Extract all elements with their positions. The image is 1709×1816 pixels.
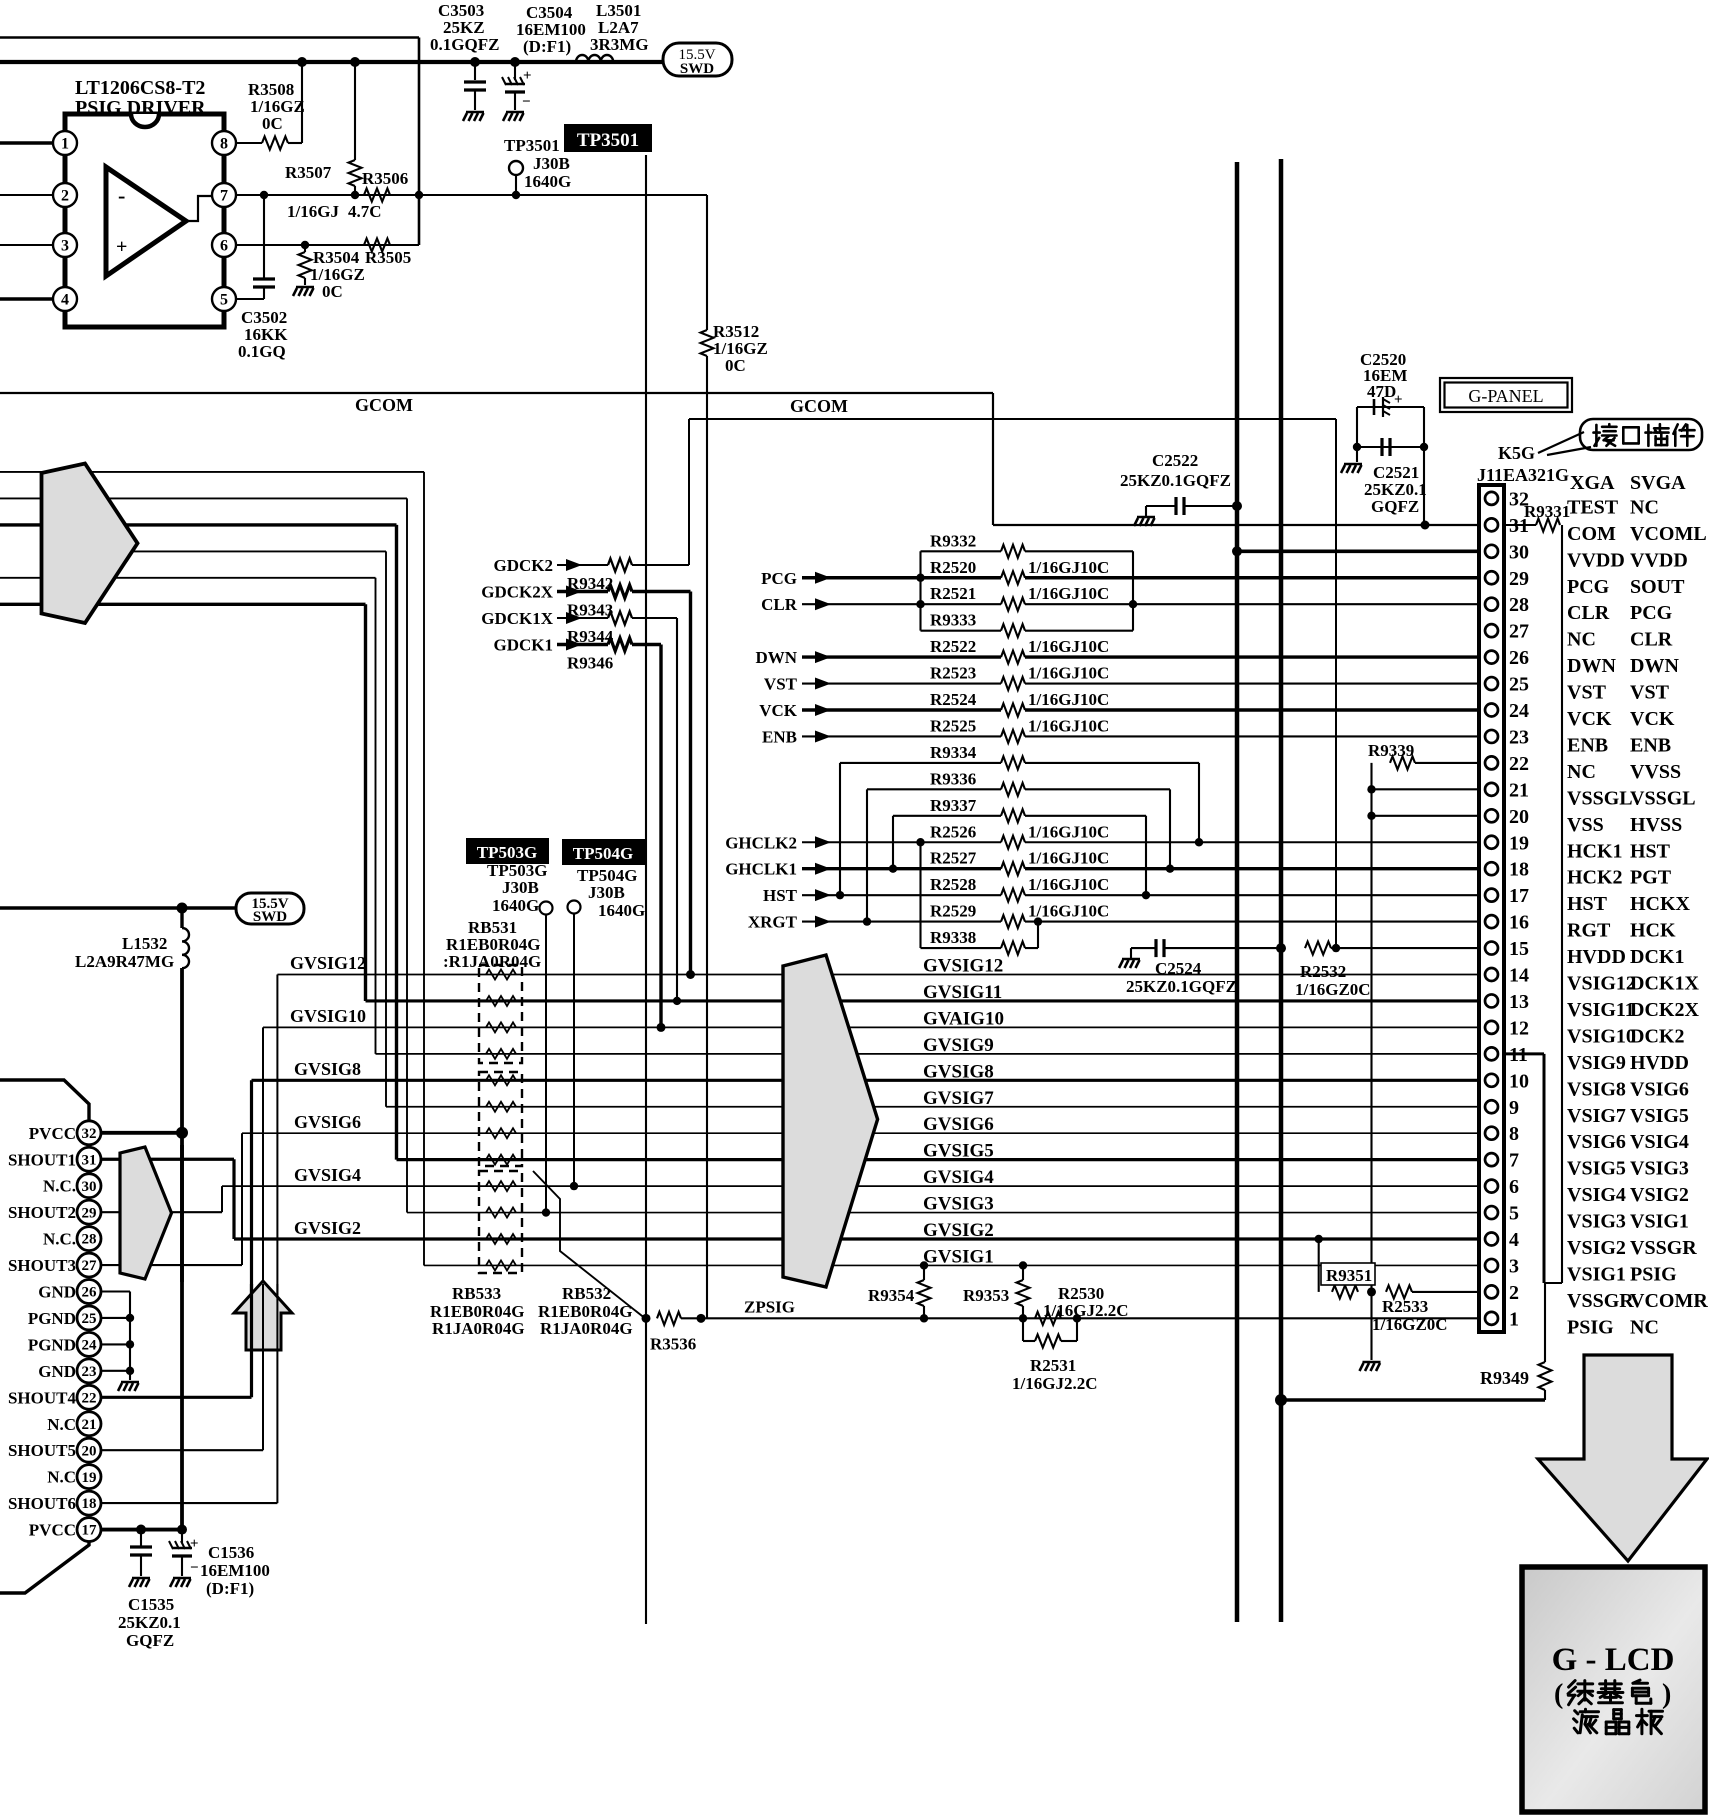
capacitor C3504 polarized to ground — [514, 62, 516, 80]
svg-text:25: 25 — [82, 1311, 97, 1327]
svg-text:24: 24 — [1509, 700, 1529, 722]
wire input line to pin 1 — [0, 141, 53, 144]
svg-text:19: 19 — [82, 1470, 97, 1486]
capacitor C2522 to VVDD bus — [1134, 517, 1155, 526]
svg-text:VVSS: VVSS — [1630, 761, 1681, 783]
resistor R3512 — [701, 330, 714, 356]
test point TP504G black label box — [562, 839, 645, 865]
wire op-amp output step to pin 7 — [186, 196, 211, 221]
wire VSIG row to pin 4 — [234, 1237, 1479, 1240]
resistor R2533 to pin2 — [1386, 1285, 1412, 1298]
svg-text:HCK2: HCK2 — [1567, 867, 1623, 889]
wire SHOUT4 line — [101, 1396, 252, 1399]
svg-text:(: ( — [1554, 1679, 1563, 1710]
svg-text:PVCC: PVCC — [29, 1521, 76, 1540]
svg-text:J30B: J30B — [588, 883, 625, 902]
wire G signal input row 2 — [0, 497, 407, 499]
left connector pin circle 25 — [77, 1306, 101, 1330]
svg-text:GVSIG2: GVSIG2 — [294, 1218, 361, 1238]
svg-text:NC: NC — [1567, 761, 1596, 783]
svg-text:GHCLK1: GHCLK1 — [725, 860, 797, 879]
pin 8 of U — [212, 131, 236, 155]
pin 1 of U — [53, 131, 77, 155]
svg-text:GVSIG9: GVSIG9 — [923, 1035, 994, 1056]
wire GHCLK1 to connector — [1025, 867, 1479, 870]
svg-text:VCK: VCK — [1567, 708, 1612, 730]
junction R3506 right with vertical — [415, 191, 423, 199]
wire GDCK2 riser up to GCOM2 — [688, 419, 690, 565]
left connector pin circle 21 — [77, 1412, 101, 1436]
connector pin 30 — [1485, 545, 1498, 558]
power flag 15.5V SWD top — [663, 43, 732, 76]
svg-text:R3536: R3536 — [650, 1334, 696, 1353]
wire SHOUT6 feeder up to VSIG12 row — [276, 975, 278, 1504]
svg-text:VSS: VSS — [1567, 814, 1604, 836]
svg-text:7: 7 — [220, 187, 228, 204]
connector pin 15 — [1485, 942, 1498, 955]
svg-text::R1JA0R04G: :R1JA0R04G — [443, 952, 541, 971]
svg-text:NC: NC — [1630, 1316, 1659, 1338]
svg-text:VSSGL: VSSGL — [1630, 787, 1696, 809]
svg-text:CLR: CLR — [1567, 602, 1610, 624]
svg-text:VSIG11: VSIG11 — [1567, 999, 1635, 1021]
svg-text:VCOML: VCOML — [1630, 523, 1707, 545]
wire jog join to R9349 — [1544, 1282, 1562, 1284]
wire PVCC17 line — [101, 1528, 182, 1532]
svg-text:1/16GJ: 1/16GJ — [287, 202, 339, 221]
svg-text:SHOUT3: SHOUT3 — [8, 1256, 76, 1275]
junction pin7 line and C3502 — [260, 191, 268, 199]
svg-text:4: 4 — [1509, 1229, 1519, 1251]
svg-text:TP503G: TP503G — [477, 843, 537, 862]
svg-text:29: 29 — [1509, 568, 1529, 590]
wire pin6 line — [236, 244, 419, 246]
resistor R3507 vertical from rail to pin7 line — [354, 62, 356, 160]
resistor element in pack row pin 11 — [486, 1049, 516, 1059]
svg-text:SWD: SWD — [253, 909, 287, 925]
svg-text:19: 19 — [1509, 832, 1529, 854]
svg-text:47D: 47D — [1367, 382, 1396, 401]
wire VSIG row to pin 11 — [376, 1053, 1480, 1055]
svg-text:R9339: R9339 — [1368, 741, 1414, 760]
svg-text:29: 29 — [82, 1205, 97, 1221]
op-amp triangle — [106, 167, 186, 276]
svg-text:VSIG5: VSIG5 — [1567, 1158, 1626, 1180]
pin 5 of U — [212, 287, 236, 311]
capacitor C2521 below — [1356, 407, 1358, 447]
junction ZPSIG at TP3501 vertical — [642, 1314, 651, 1323]
wire VSIG row to pin 5 — [407, 1212, 1479, 1214]
wire SHOUT2 line — [101, 1211, 222, 1213]
connector pin 12 — [1485, 1021, 1498, 1034]
wire VST to connector — [1025, 682, 1479, 684]
svg-text:SWD: SWD — [680, 61, 714, 77]
resistor pack RB531 dashed box — [479, 965, 522, 1063]
svg-text:16EM100: 16EM100 — [200, 1561, 270, 1580]
left connector pin circle 28 — [77, 1227, 101, 1251]
connector pin 24 — [1485, 704, 1498, 717]
svg-text:HST: HST — [763, 886, 798, 905]
resistor R9351 — [1318, 1239, 1320, 1292]
test point TP504G circle and stem to VSIG4 row — [568, 901, 581, 914]
wire R3508 to rail — [288, 142, 302, 144]
wire SHOUT3 line — [101, 1264, 242, 1266]
resistor R2532 to pin15 — [1305, 942, 1331, 955]
left connector pin circle 18 — [77, 1491, 101, 1515]
junction ZPSIG at R3512 vertical — [697, 1314, 706, 1323]
amplifier body outline top — [0, 1080, 89, 1121]
svg-text:1/16GJ2.2C: 1/16GJ2.2C — [1012, 1374, 1097, 1393]
svg-text:0C: 0C — [262, 114, 283, 133]
svg-text:SOUT: SOUT — [1630, 576, 1685, 598]
svg-text:R2520: R2520 — [930, 558, 976, 577]
left connector pin circle 31 — [77, 1147, 101, 1171]
resistor pack RB532 dashed box — [479, 1171, 522, 1273]
wire ZPSIG to connector pin1 PSIG — [701, 1317, 1479, 1319]
wire VSIG row to pin 12 — [263, 1026, 1479, 1028]
pin 4 of U — [53, 287, 77, 311]
svg-text:SHOUT1: SHOUT1 — [8, 1150, 76, 1169]
connector pin 32 — [1485, 492, 1498, 505]
svg-text:CLR: CLR — [761, 595, 798, 614]
test point TP3501 black label box — [564, 124, 652, 152]
resistor element in pack row pin 4 — [486, 1234, 516, 1244]
svg-text:DWN: DWN — [755, 648, 797, 667]
svg-text:R9334: R9334 — [930, 743, 977, 762]
capacitor C2524 on HVDD row — [1119, 959, 1140, 968]
junction VSIG2 row to R9351 — [1315, 1235, 1323, 1243]
svg-text:GVSIG3: GVSIG3 — [923, 1194, 994, 1215]
resistor pack RB533 dashed box — [479, 1072, 522, 1166]
svg-text:VST: VST — [1567, 682, 1607, 704]
svg-text:J30B: J30B — [502, 878, 539, 897]
wire G signal column 5 down — [375, 578, 377, 1054]
svg-text:N.C: N.C — [47, 1468, 76, 1487]
svg-text:C2524: C2524 — [1155, 959, 1202, 978]
svg-text:R3506: R3506 — [362, 169, 408, 188]
svg-text:7: 7 — [1509, 1150, 1519, 1172]
svg-text:30: 30 — [1509, 541, 1529, 563]
svg-text:20: 20 — [82, 1443, 97, 1459]
wire ENB to connector — [1025, 735, 1479, 737]
svg-text:J11EA321G: J11EA321G — [1477, 465, 1569, 485]
wire XRGT to connector — [1025, 921, 1479, 923]
connector pin 11 — [1485, 1047, 1498, 1060]
svg-text:C1536: C1536 — [208, 1543, 254, 1562]
junction rail at C3504 — [510, 57, 520, 67]
wire R9334 left leg to HST — [839, 763, 841, 895]
callout box with Chinese interface-connector text — [1580, 419, 1702, 450]
svg-text:L1532: L1532 — [122, 934, 167, 953]
wire R9337 right leg to HST — [1025, 815, 1146, 817]
svg-text:15: 15 — [1509, 938, 1529, 960]
resistor R9344 on GDCK1X — [608, 612, 632, 625]
inductor L1532 — [180, 908, 183, 928]
wire R9334 right leg to GHCLK2 — [1025, 762, 1199, 764]
svg-text:8: 8 — [220, 135, 228, 152]
wire GND23 — [101, 1370, 130, 1372]
svg-text:R9354: R9354 — [868, 1286, 915, 1305]
resistor R3508 — [262, 137, 288, 150]
connector pin 1 — [1485, 1312, 1498, 1325]
svg-text:8: 8 — [1509, 1123, 1519, 1145]
power flag 15.5V SWD left — [0, 906, 236, 909]
svg-text:DCK1X: DCK1X — [1630, 973, 1699, 995]
svg-text:VSIG6: VSIG6 — [1567, 1131, 1626, 1153]
svg-text:GQFZ: GQFZ — [126, 1631, 174, 1650]
svg-text:VSIG1: VSIG1 — [1567, 1263, 1626, 1285]
resistor element in pack row pin 3 — [486, 1260, 516, 1270]
capacitor C3503 to ground — [474, 62, 476, 80]
left connector pin circle 22 — [77, 1385, 101, 1409]
svg-text:J30B: J30B — [533, 154, 570, 173]
wire pin8 lead — [236, 142, 262, 144]
wire GCOM corner down — [992, 393, 994, 525]
connector pin 21 — [1485, 783, 1498, 796]
svg-text:VSIG7: VSIG7 — [1567, 1105, 1626, 1127]
wire pin5 lead — [236, 298, 264, 300]
svg-text:GVSIG8: GVSIG8 — [923, 1061, 994, 1082]
svg-text:RB533: RB533 — [452, 1284, 501, 1303]
svg-text:TP3501: TP3501 — [577, 130, 639, 151]
junction HVDD bus R2532 — [1276, 943, 1286, 953]
svg-text:R3505: R3505 — [365, 248, 411, 267]
test point TP503G black label box — [466, 838, 549, 864]
junction rail at C3503 — [470, 57, 480, 67]
svg-text:VSSGR: VSSGR — [1567, 1290, 1634, 1312]
svg-text:G - LCD: G - LCD — [1552, 1642, 1675, 1678]
svg-text:28: 28 — [82, 1232, 97, 1248]
svg-text:1/16GZ0C: 1/16GZ0C — [1295, 980, 1371, 999]
svg-text:ENB: ENB — [1567, 734, 1608, 756]
svg-text:14: 14 — [1509, 965, 1529, 987]
block arrow mid GVSIG bus — [783, 955, 878, 1287]
resistor R3506 on pin7 line — [364, 189, 390, 202]
svg-text:1640G: 1640G — [598, 901, 645, 920]
svg-text:27: 27 — [82, 1258, 98, 1274]
svg-text:R2524: R2524 — [930, 690, 977, 709]
resistor element in pack row pin 12 — [486, 1022, 516, 1032]
callout pointer lines to K5G — [1538, 432, 1584, 453]
svg-text:DWN: DWN — [1567, 655, 1616, 677]
connector pin 20 — [1485, 809, 1498, 822]
svg-text:13: 13 — [1509, 991, 1529, 1013]
ground below R3504 — [293, 287, 314, 296]
connector pin 2 — [1485, 1285, 1498, 1298]
svg-text:21: 21 — [82, 1417, 97, 1433]
wire input line to pin 4 — [0, 297, 53, 300]
svg-text:20: 20 — [1509, 806, 1529, 828]
svg-text:SVGA: SVGA — [1630, 472, 1686, 494]
wire GCOM upper line — [0, 392, 993, 394]
svg-text:GCOM: GCOM — [355, 395, 413, 415]
svg-text:LT1206CS8-T2: LT1206CS8-T2 — [75, 77, 205, 99]
wire input line to pin 2 — [0, 194, 53, 196]
wire R9337 left leg to GHCLK1 — [892, 816, 894, 869]
resistor R9331 from pin31 — [1504, 524, 1536, 526]
svg-text:2: 2 — [61, 187, 69, 204]
svg-text:C1535: C1535 — [128, 1595, 174, 1614]
svg-text:30: 30 — [82, 1179, 97, 1195]
svg-text:HST: HST — [1630, 840, 1671, 862]
wire SHOUT6 line — [101, 1502, 277, 1504]
svg-text:VSIG12: VSIG12 — [1567, 973, 1636, 995]
wire GND26 to ground chain — [101, 1290, 130, 1292]
left connector pin circle 30 — [77, 1174, 101, 1198]
wire pin7 line corner down to R3512 — [706, 195, 708, 330]
svg-text:VVDD: VVDD — [1630, 549, 1688, 571]
svg-text:VSIG10: VSIG10 — [1567, 1025, 1636, 1047]
svg-text:23: 23 — [82, 1364, 97, 1380]
svg-text:HCKX: HCKX — [1630, 893, 1691, 915]
svg-text:N.C.: N.C. — [43, 1230, 76, 1249]
svg-text:28: 28 — [1509, 594, 1529, 616]
block arrow upward from SHOUT outputs — [234, 1281, 292, 1350]
svg-text:1/16GJ10C: 1/16GJ10C — [1028, 690, 1109, 709]
left connector pin circle 32 — [77, 1121, 101, 1145]
svg-text:GVSIG6: GVSIG6 — [923, 1114, 994, 1135]
svg-text:PGND: PGND — [28, 1335, 76, 1354]
wire feeders crossing up arrow — [250, 1284, 253, 1350]
resistor element in pack row pin 13 — [486, 996, 516, 1006]
svg-text:PSIG: PSIG — [1567, 1316, 1614, 1338]
svg-text:R2533: R2533 — [1382, 1297, 1428, 1316]
wire G signal column 1 down — [423, 472, 425, 1266]
svg-text:ZPSIG: ZPSIG — [744, 1297, 795, 1316]
svg-text:HVDD: HVDD — [1567, 946, 1626, 968]
svg-text:1/16GJ2.2C: 1/16GJ2.2C — [1043, 1301, 1128, 1320]
resistor R9339 to pin22 — [1415, 762, 1479, 764]
wire VSIG row to pin 9 — [386, 1106, 1479, 1108]
svg-text:SHOUT2: SHOUT2 — [8, 1203, 76, 1222]
svg-text:0C: 0C — [322, 282, 343, 301]
svg-text:26: 26 — [1509, 647, 1529, 669]
svg-text:4: 4 — [61, 291, 69, 308]
wire SHOUT5 feeder up to VSIG10 row — [262, 1027, 264, 1450]
connector pin 17 — [1485, 889, 1498, 902]
junction on rail at R3508 — [297, 57, 307, 67]
svg-text:VSIG1: VSIG1 — [1630, 1211, 1689, 1233]
wire G signal input row 6 — [0, 603, 366, 606]
svg-text:R9351: R9351 — [1326, 1266, 1372, 1285]
capacitor C2520 polarized top — [1357, 406, 1424, 408]
connector pin 16 — [1485, 915, 1498, 928]
svg-text:COM: COM — [1567, 523, 1616, 545]
connector pin 27 — [1485, 624, 1498, 637]
svg-text:1/16GJ10C: 1/16GJ10C — [1028, 716, 1109, 735]
svg-text:1: 1 — [61, 135, 69, 152]
svg-text:R2529: R2529 — [930, 902, 976, 921]
resistor R9346 on GDCK1 — [608, 638, 632, 651]
wire SHOUT1 feeder down to VSIG2 row — [232, 1159, 235, 1239]
block arrow from video amp (top-left) — [42, 464, 138, 624]
svg-text:N.C.: N.C. — [43, 1177, 76, 1196]
svg-text:R9336: R9336 — [930, 769, 976, 788]
svg-text:+: + — [116, 236, 127, 258]
wire SHOUT5 line — [101, 1449, 263, 1451]
left connector pin circle 19 — [77, 1465, 101, 1489]
svg-text:17: 17 — [1509, 885, 1529, 907]
svg-text:DCK1: DCK1 — [1630, 946, 1684, 968]
svg-text:DWN: DWN — [1630, 655, 1679, 677]
junction 15.5V at L1532 — [177, 903, 188, 914]
svg-text:HCK1: HCK1 — [1567, 840, 1623, 862]
svg-text:R2523: R2523 — [930, 664, 976, 683]
block arrow down to G-LCD — [1538, 1355, 1707, 1561]
svg-text:NC: NC — [1567, 629, 1596, 651]
wire R9336 right leg to GHCLK1 — [1025, 788, 1170, 790]
svg-text:HVDD: HVDD — [1630, 1052, 1689, 1074]
svg-text:9: 9 — [1509, 1097, 1519, 1119]
wire PCG to connector — [1025, 576, 1479, 579]
svg-text:NC: NC — [1630, 496, 1659, 518]
svg-text:4.7C: 4.7C — [348, 202, 382, 221]
svg-text:GDCK2X: GDCK2X — [481, 583, 554, 602]
bus HVDD vertical thick — [1279, 159, 1284, 1622]
junction R9351 R2533 node on VSS leg — [1367, 1287, 1376, 1296]
wire R9338 left bracket from GHCLK2 — [919, 842, 921, 948]
svg-text:GHCLK2: GHCLK2 — [725, 833, 797, 852]
wire diagonal from pack to ZPSIG node — [533, 1171, 645, 1318]
pin 7 of U — [212, 183, 236, 207]
left connector pin circle 24 — [77, 1332, 101, 1356]
wire SHOUT4 feeder up to VSIG8 row — [250, 1080, 253, 1397]
svg-text:25KZ0.1GQFZ: 25KZ0.1GQFZ — [1120, 471, 1231, 490]
left connector pin circle 20 — [77, 1438, 101, 1462]
svg-text:VSIG5: VSIG5 — [1630, 1105, 1689, 1127]
junction R3504 top on pin6 line — [301, 241, 309, 249]
svg-text:3: 3 — [1509, 1255, 1519, 1277]
resistor R9354 from GVSIG1 to ZPSIG — [920, 1261, 928, 1269]
svg-text:VSIG2: VSIG2 — [1630, 1184, 1689, 1206]
svg-text:HVSS: HVSS — [1630, 814, 1682, 836]
svg-text:SHOUT5: SHOUT5 — [8, 1441, 76, 1460]
pin 2 of U — [53, 183, 77, 207]
wire vertical from top rail down to R3505/R3506 right ends — [418, 38, 421, 246]
left connector pin circle 26 — [77, 1280, 101, 1304]
pin 3 of U — [53, 233, 77, 257]
svg-text:VST: VST — [764, 675, 798, 694]
svg-text:2: 2 — [1509, 1282, 1519, 1304]
svg-text:R1JA0R04G: R1JA0R04G — [540, 1319, 633, 1338]
svg-text:GVSIG4: GVSIG4 — [294, 1165, 361, 1185]
capacitor C1535 to ground — [140, 1530, 142, 1546]
svg-text:32: 32 — [82, 1126, 97, 1142]
svg-text:DCK2X: DCK2X — [1630, 999, 1699, 1021]
svg-text:PVCC: PVCC — [29, 1124, 76, 1143]
svg-text:R9349: R9349 — [1480, 1368, 1529, 1388]
wire SHOUT1 line — [101, 1158, 234, 1161]
svg-text:GVSIG4: GVSIG4 — [923, 1167, 994, 1188]
connector pin 10 — [1485, 1074, 1498, 1087]
svg-text:1640G: 1640G — [492, 896, 539, 915]
svg-text:GDCK2: GDCK2 — [494, 556, 554, 575]
svg-text:XGA: XGA — [1570, 472, 1615, 494]
svg-text:VSIG6: VSIG6 — [1630, 1078, 1689, 1100]
svg-text:22: 22 — [1509, 753, 1529, 775]
svg-text:VVDD: VVDD — [1567, 549, 1625, 571]
svg-text:−: − — [190, 1560, 199, 1576]
wire GCOM second line from GDCK2 riser — [689, 418, 1336, 420]
op-amp U: IC body LT1206CS8-T2 — [65, 114, 224, 327]
svg-text:18: 18 — [1509, 859, 1529, 881]
wire G signal input row 1 — [0, 471, 424, 473]
svg-text:VSIG8: VSIG8 — [1567, 1078, 1626, 1100]
wire VSIG row to pin 3 — [424, 1264, 1479, 1266]
svg-text:R9346: R9346 — [567, 654, 613, 673]
svg-text:1/16GJ10C: 1/16GJ10C — [1028, 664, 1109, 683]
resistor R9342 on GDCK2 — [608, 559, 632, 572]
